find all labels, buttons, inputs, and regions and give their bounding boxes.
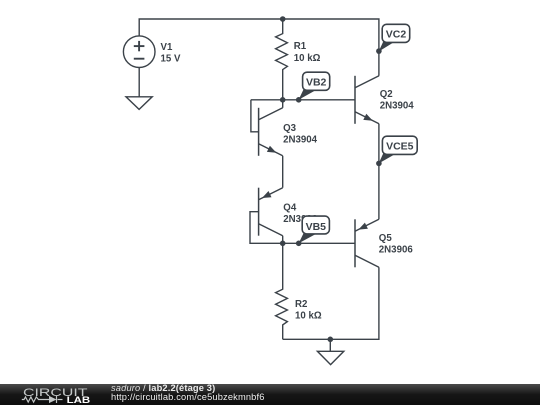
svg-text:R2: R2 — [295, 299, 307, 310]
svg-text:VC2: VC2 — [386, 29, 407, 41]
svg-text:VB5: VB5 — [306, 221, 327, 233]
svg-text:VB2: VB2 — [306, 77, 327, 89]
svg-text:2N3906: 2N3906 — [379, 245, 414, 256]
svg-text:Q5: Q5 — [379, 233, 393, 244]
svg-text:LAB: LAB — [67, 395, 91, 405]
svg-text:2N3904: 2N3904 — [283, 135, 318, 146]
svg-text:Q3: Q3 — [283, 123, 297, 134]
svg-text:10 kΩ: 10 kΩ — [295, 311, 322, 322]
svg-text:VCE5: VCE5 — [386, 141, 414, 153]
svg-text:Q2: Q2 — [380, 89, 393, 100]
svg-text:10 kΩ: 10 kΩ — [294, 53, 321, 64]
svg-text:R1: R1 — [294, 41, 307, 52]
svg-text:2N3904: 2N3904 — [380, 101, 415, 112]
svg-text:15 V: 15 V — [161, 54, 181, 65]
svg-text:Q4: Q4 — [283, 202, 297, 213]
svg-text:V1: V1 — [161, 42, 173, 53]
